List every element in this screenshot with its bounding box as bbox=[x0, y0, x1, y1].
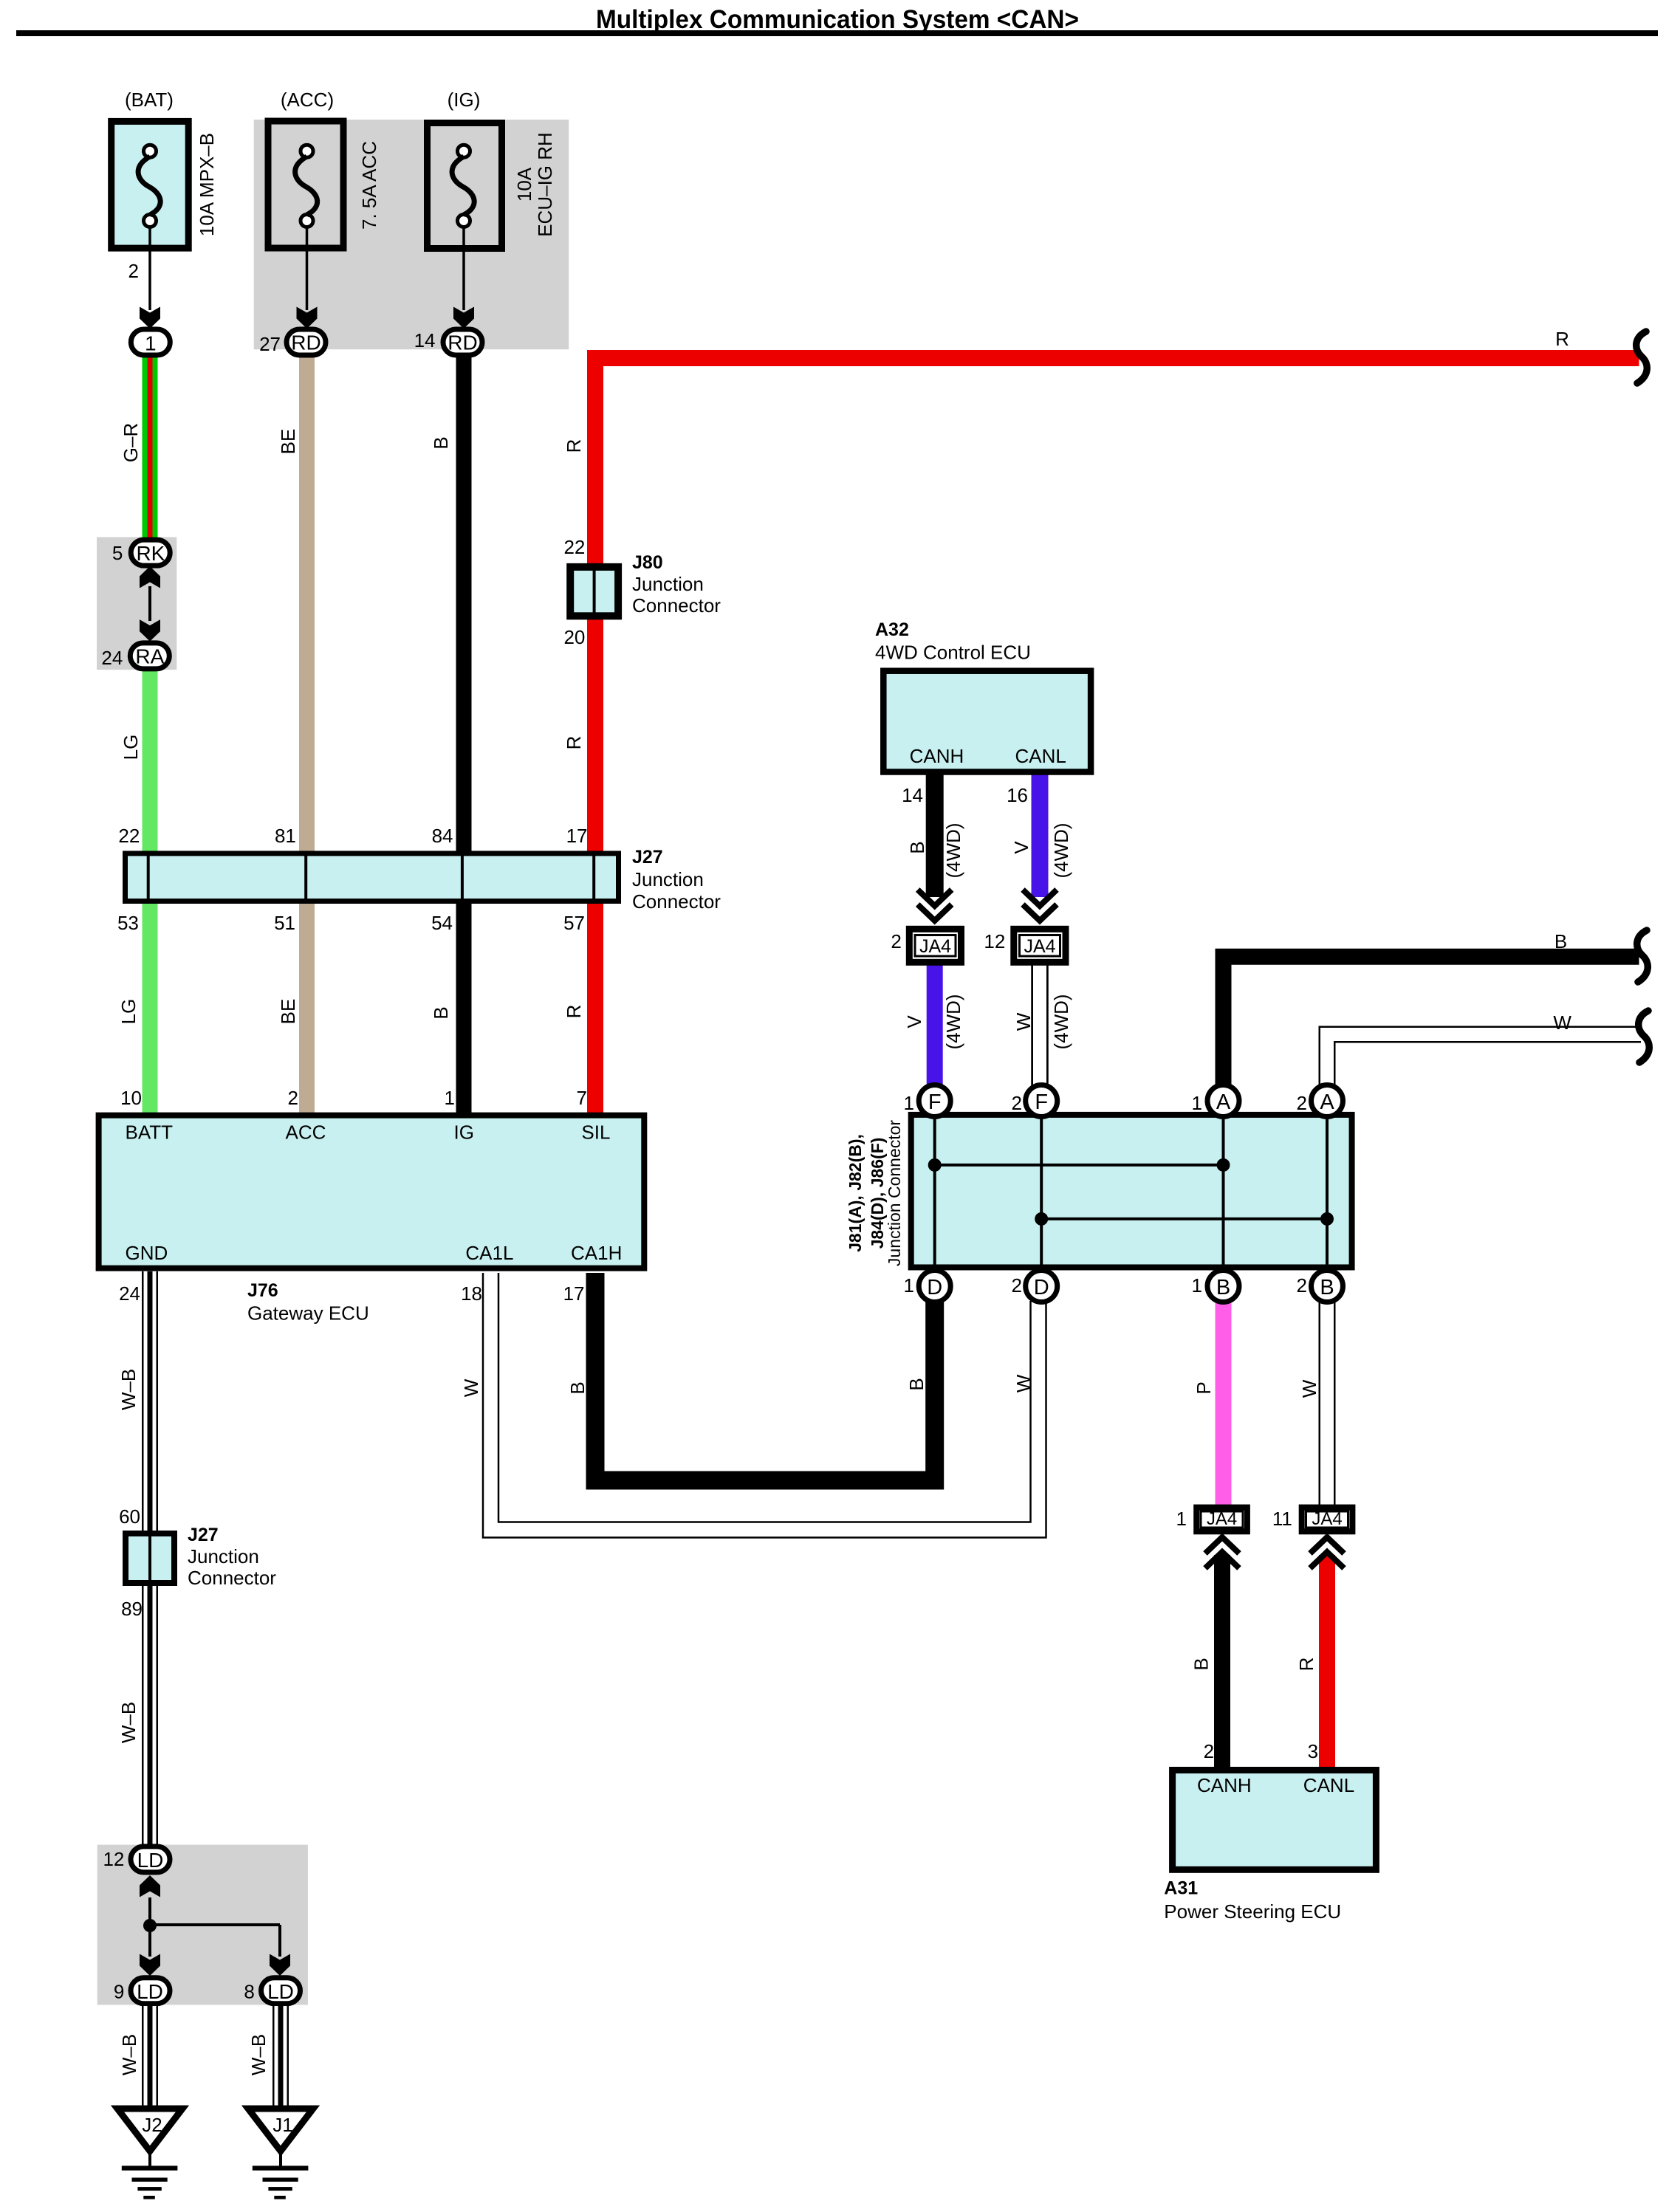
svg-text:1: 1 bbox=[1192, 1274, 1202, 1296]
svg-text:(4WD): (4WD) bbox=[1050, 822, 1072, 878]
svg-text:(4WD): (4WD) bbox=[942, 822, 964, 878]
svg-text:18: 18 bbox=[461, 1282, 482, 1305]
wire B A31 CANH bbox=[1214, 1555, 1230, 1769]
svg-text:Junction: Junction bbox=[632, 868, 704, 890]
wire B J27 to J76 IG bbox=[456, 902, 472, 1115]
label J80 Junction Connector bbox=[632, 552, 721, 616]
svg-text:A: A bbox=[1216, 1090, 1231, 1114]
label J27 Junction Connector bbox=[632, 847, 721, 913]
wire V JA4 to 1F bbox=[927, 965, 943, 1087]
node 2B bbox=[1312, 1271, 1343, 1302]
lead BAT fuse to arrow bbox=[148, 227, 151, 310]
junction dot 1F-1A right bbox=[1217, 1158, 1230, 1172]
node 1F bbox=[919, 1085, 950, 1117]
junction dot 2F-2A right bbox=[1320, 1212, 1334, 1226]
wire B break from 1A bbox=[1224, 957, 1639, 1087]
svg-text:3: 3 bbox=[1308, 1740, 1318, 1762]
arrow into RD 27 bbox=[297, 307, 318, 329]
svg-text:84: 84 bbox=[432, 825, 453, 847]
wire LG RA to J27 bbox=[143, 668, 158, 853]
svg-text:2: 2 bbox=[1012, 1274, 1022, 1296]
svg-text:LG: LG bbox=[120, 735, 142, 760]
svg-text:J81(A), J82(B),: J81(A), J82(B), bbox=[846, 1134, 865, 1252]
svg-text:Power Steering ECU: Power Steering ECU bbox=[1164, 1900, 1341, 1923]
connector oval RK bbox=[131, 540, 170, 566]
svg-text:J76: J76 bbox=[247, 1280, 278, 1301]
wire LG J27 to J76 BATT bbox=[143, 902, 158, 1115]
svg-text:R: R bbox=[563, 439, 585, 453]
svg-text:R: R bbox=[1295, 1658, 1317, 1672]
svg-text:2: 2 bbox=[1012, 1092, 1022, 1114]
svg-text:1: 1 bbox=[904, 1092, 914, 1114]
svg-text:W–B: W–B bbox=[117, 1702, 140, 1743]
svg-text:R: R bbox=[563, 736, 585, 750]
svg-text:Multiplex Communication System: Multiplex Communication System <CAN> bbox=[596, 5, 1079, 34]
svg-text:RD: RD bbox=[448, 332, 477, 354]
svg-text:RD: RD bbox=[291, 332, 320, 354]
ground J1 bbox=[248, 2109, 313, 2199]
svg-text:11: 11 bbox=[1272, 1508, 1292, 1530]
label J76 Gateway ECU bbox=[247, 1280, 369, 1325]
node 1D bbox=[919, 1271, 950, 1302]
wire BE fuse to J27 bbox=[299, 353, 315, 853]
wire P 1B to JA4 bbox=[1216, 1301, 1232, 1506]
svg-text:22: 22 bbox=[118, 825, 140, 847]
svg-text:B: B bbox=[1190, 1658, 1213, 1670]
svg-text:V: V bbox=[903, 1015, 925, 1028]
svg-text:W–B: W–B bbox=[117, 1369, 140, 1410]
connector oval LD 9 bbox=[131, 1978, 170, 2004]
node 2F bbox=[1026, 1085, 1057, 1117]
arrow down into LD 9 bbox=[140, 1954, 160, 1976]
svg-text:GND: GND bbox=[126, 1242, 168, 1264]
svg-text:B: B bbox=[1216, 1276, 1230, 1299]
svg-text:Junction Connector: Junction Connector bbox=[885, 1120, 904, 1267]
ECU A31 box bbox=[1173, 1770, 1377, 1870]
svg-text:B: B bbox=[566, 1381, 589, 1394]
svg-text:1: 1 bbox=[145, 332, 157, 355]
svg-text:CANL: CANL bbox=[1015, 745, 1066, 767]
wire R from break to J76 SIL bbox=[595, 358, 1639, 1115]
svg-text:ECU–IG RH: ECU–IG RH bbox=[534, 132, 556, 237]
gateway ECU J76 box bbox=[99, 1116, 645, 1268]
wire W-B to ground J2 bbox=[142, 2006, 158, 2106]
svg-text:14: 14 bbox=[414, 329, 436, 351]
wire CA1L white bbox=[491, 1273, 1039, 1530]
svg-text:IG: IG bbox=[454, 1122, 474, 1144]
svg-text:2: 2 bbox=[1297, 1092, 1307, 1114]
connector oval RD 27 bbox=[287, 329, 326, 355]
arrow chevrons up into JA4 1 bbox=[1205, 1537, 1239, 1568]
wire LD junction bbox=[150, 1897, 280, 1957]
svg-text:17: 17 bbox=[563, 1282, 585, 1305]
svg-text:14: 14 bbox=[902, 784, 923, 806]
svg-text:Junction: Junction bbox=[632, 573, 704, 595]
arrow into RD 14 bbox=[453, 307, 474, 329]
svg-text:10A: 10A bbox=[513, 167, 535, 202]
double arrow RK to RA bbox=[140, 566, 160, 642]
junction connector JA4 1 box bbox=[1196, 1508, 1247, 1532]
svg-text:B: B bbox=[1554, 930, 1567, 952]
svg-text:24: 24 bbox=[119, 1282, 140, 1305]
svg-text:CANH: CANH bbox=[910, 745, 964, 767]
svg-text:F: F bbox=[1035, 1090, 1048, 1114]
svg-text:D: D bbox=[927, 1276, 942, 1299]
svg-text:1: 1 bbox=[1192, 1092, 1202, 1114]
svg-text:J27: J27 bbox=[188, 1525, 219, 1545]
svg-text:12: 12 bbox=[984, 930, 1005, 952]
svg-text:F: F bbox=[928, 1090, 942, 1114]
svg-text:CA1H: CA1H bbox=[571, 1242, 622, 1264]
fuse IG 10A ECU-IG RH bbox=[428, 123, 502, 249]
break symbol R bbox=[1636, 332, 1648, 383]
wire CA1H black bbox=[595, 1273, 935, 1480]
arrow chevrons into JA4 12 bbox=[1023, 890, 1057, 921]
svg-text:Junction: Junction bbox=[188, 1545, 259, 1567]
break symbol B bbox=[1637, 930, 1648, 982]
svg-text:57: 57 bbox=[563, 912, 585, 934]
svg-text:7. 5A ACC: 7. 5A ACC bbox=[358, 141, 380, 230]
wire W-B GND J76 to LD bbox=[142, 1271, 158, 1846]
svg-text:B: B bbox=[1320, 1276, 1334, 1299]
svg-text:W–B: W–B bbox=[118, 2034, 140, 2075]
junction connector JA4 2 box bbox=[909, 929, 961, 962]
svg-text:7: 7 bbox=[577, 1087, 587, 1109]
svg-text:A31: A31 bbox=[1164, 1878, 1198, 1898]
grey panel RK/RA bbox=[97, 537, 176, 670]
svg-text:2: 2 bbox=[1297, 1274, 1307, 1296]
svg-text:W: W bbox=[1298, 1379, 1320, 1398]
svg-text:W: W bbox=[1012, 1374, 1035, 1392]
connector oval RA bbox=[130, 643, 169, 669]
ECU A32 box bbox=[883, 671, 1091, 772]
svg-text:LD: LD bbox=[137, 1849, 164, 1872]
svg-text:2: 2 bbox=[891, 930, 901, 952]
svg-text:Connector: Connector bbox=[632, 594, 721, 616]
arrow chevrons up into JA4 11 bbox=[1310, 1537, 1344, 1568]
svg-text:RK: RK bbox=[136, 542, 165, 565]
svg-text:B: B bbox=[905, 1378, 928, 1390]
lead IG fuse to arrow bbox=[462, 227, 465, 310]
svg-text:BE: BE bbox=[277, 999, 299, 1025]
svg-text:RA: RA bbox=[135, 645, 164, 668]
svg-text:81: 81 bbox=[275, 825, 296, 847]
svg-text:J2: J2 bbox=[142, 2114, 162, 2136]
svg-text:P: P bbox=[1193, 1381, 1215, 1394]
svg-text:60: 60 bbox=[119, 1505, 140, 1528]
svg-text:JA4: JA4 bbox=[1312, 1509, 1342, 1529]
svg-text:89: 89 bbox=[121, 1598, 143, 1620]
ground J2 bbox=[117, 2109, 182, 2199]
junction dot LD bbox=[143, 1919, 157, 1932]
junction connector J27 bar bbox=[126, 853, 619, 901]
label 10A ECU-IG RH bbox=[513, 132, 556, 237]
junction dot 2F-2A left bbox=[1035, 1212, 1048, 1226]
svg-text:22: 22 bbox=[563, 536, 585, 558]
svg-text:CANL: CANL bbox=[1303, 1774, 1354, 1796]
svg-text:B: B bbox=[430, 436, 452, 449]
wire B fuse to J27 bbox=[456, 353, 472, 853]
svg-text:17: 17 bbox=[566, 825, 588, 847]
svg-text:9: 9 bbox=[114, 1981, 124, 2003]
title rule bbox=[16, 30, 1658, 36]
arrow down into LD 8 bbox=[270, 1954, 290, 1976]
node 1A bbox=[1207, 1085, 1239, 1117]
connector oval RD 14 bbox=[443, 329, 482, 355]
svg-text:20: 20 bbox=[563, 626, 585, 648]
grey panel LD bbox=[97, 1845, 308, 2005]
node 2A bbox=[1312, 1085, 1343, 1117]
wire G-R col1 bbox=[143, 353, 158, 540]
svg-text:W–B: W–B bbox=[247, 2034, 270, 2075]
svg-text:ACC: ACC bbox=[286, 1122, 326, 1144]
label J27 small Junction Connector bbox=[188, 1525, 276, 1589]
connector oval LD 8 bbox=[261, 1978, 301, 2004]
junction connector J81 box bbox=[911, 1115, 1352, 1271]
arrow into connector 1 bbox=[140, 307, 160, 329]
svg-text:A32: A32 bbox=[875, 619, 909, 640]
svg-text:10: 10 bbox=[120, 1087, 142, 1109]
svg-text:(ACC): (ACC) bbox=[281, 89, 334, 111]
wire W 2B to JA4 bbox=[1319, 1301, 1336, 1506]
connector oval 1 bbox=[131, 329, 170, 355]
connector oval LD 12 bbox=[131, 1847, 170, 1872]
svg-text:W: W bbox=[1553, 1011, 1571, 1034]
svg-text:12: 12 bbox=[103, 1848, 124, 1870]
svg-text:(4WD): (4WD) bbox=[1050, 994, 1072, 1049]
fuse ACC 7.5A bbox=[268, 121, 343, 248]
svg-text:Connector: Connector bbox=[188, 1567, 276, 1589]
svg-text:B: B bbox=[430, 1006, 452, 1019]
junction dot 1F-1A left bbox=[928, 1158, 942, 1172]
svg-text:CA1L: CA1L bbox=[465, 1242, 513, 1264]
svg-text:51: 51 bbox=[274, 912, 295, 934]
svg-text:JA4: JA4 bbox=[919, 936, 951, 957]
svg-text:2: 2 bbox=[1204, 1740, 1214, 1762]
svg-text:1: 1 bbox=[904, 1274, 914, 1296]
svg-text:LG: LG bbox=[117, 999, 140, 1025]
svg-text:B: B bbox=[906, 841, 928, 853]
fuse BAT 10A MPX-B bbox=[112, 121, 189, 248]
svg-text:8: 8 bbox=[244, 1981, 254, 2003]
node 1B bbox=[1207, 1271, 1239, 1302]
svg-text:24: 24 bbox=[101, 647, 123, 669]
wire BE J27 to J76 ACC bbox=[299, 902, 315, 1115]
svg-text:BATT: BATT bbox=[126, 1122, 174, 1144]
wire B A32 CANH to JA4 bbox=[926, 774, 944, 897]
svg-text:D: D bbox=[1034, 1276, 1049, 1299]
svg-text:J27: J27 bbox=[632, 847, 663, 868]
junction connector J80 box bbox=[570, 567, 618, 616]
svg-text:V: V bbox=[1010, 841, 1032, 854]
junction connector J27 small box bbox=[126, 1533, 174, 1583]
svg-text:W: W bbox=[1012, 1012, 1035, 1031]
svg-text:SIL: SIL bbox=[581, 1122, 610, 1144]
svg-text:16: 16 bbox=[1007, 784, 1028, 806]
wire W JA4 to 2F bbox=[1031, 965, 1049, 1087]
svg-text:53: 53 bbox=[117, 912, 139, 934]
label J81 J82 J84 J86 Junction Connector bbox=[846, 1120, 904, 1267]
svg-text:CANH: CANH bbox=[1197, 1774, 1252, 1796]
arrow chevrons into JA4 2 bbox=[918, 890, 952, 921]
svg-text:BE: BE bbox=[277, 429, 299, 455]
svg-text:1: 1 bbox=[1176, 1508, 1187, 1530]
svg-text:Gateway ECU: Gateway ECU bbox=[247, 1302, 369, 1325]
svg-text:LD: LD bbox=[267, 1980, 294, 2003]
svg-text:1: 1 bbox=[445, 1087, 455, 1109]
svg-text:LD: LD bbox=[137, 1980, 163, 2003]
svg-text:J80: J80 bbox=[632, 552, 663, 573]
arrow up into LD 12 bbox=[140, 1875, 160, 1897]
svg-text:Connector: Connector bbox=[632, 890, 721, 913]
wire W-B to ground J1 bbox=[272, 2006, 289, 2106]
svg-text:JA4: JA4 bbox=[1024, 936, 1055, 957]
break symbol W bbox=[1639, 1011, 1650, 1062]
node 2D bbox=[1026, 1271, 1057, 1302]
svg-text:R: R bbox=[1555, 328, 1569, 350]
svg-text:2: 2 bbox=[288, 1087, 298, 1109]
wire V A32 CANL to JA4 bbox=[1032, 774, 1049, 897]
svg-text:54: 54 bbox=[431, 912, 453, 934]
svg-text:2: 2 bbox=[128, 260, 139, 282]
svg-text:(IG): (IG) bbox=[448, 89, 481, 111]
junction connector JA4 12 box bbox=[1014, 929, 1066, 962]
wire R A31 CANL bbox=[1319, 1555, 1335, 1769]
svg-text:A: A bbox=[1320, 1090, 1334, 1114]
svg-text:R: R bbox=[563, 1005, 585, 1019]
lead ACC fuse to arrow bbox=[306, 227, 309, 310]
svg-text:4WD Control ECU: 4WD Control ECU bbox=[875, 641, 1031, 663]
svg-text:(BAT): (BAT) bbox=[125, 89, 174, 111]
svg-text:(4WD): (4WD) bbox=[942, 994, 964, 1049]
junction connector JA4 11 box bbox=[1302, 1508, 1353, 1532]
svg-text:JA4: JA4 bbox=[1207, 1509, 1237, 1529]
wire W break from 2A bbox=[1327, 1034, 1641, 1087]
svg-text:G–R: G–R bbox=[120, 423, 142, 462]
svg-text:27: 27 bbox=[259, 333, 281, 355]
grey panel behind ACC/IG fuses bbox=[254, 120, 569, 349]
svg-text:5: 5 bbox=[112, 542, 123, 564]
svg-text:W: W bbox=[460, 1378, 482, 1397]
svg-text:J1: J1 bbox=[272, 2114, 292, 2136]
svg-text:10A MPX–B: 10A MPX–B bbox=[196, 133, 218, 236]
